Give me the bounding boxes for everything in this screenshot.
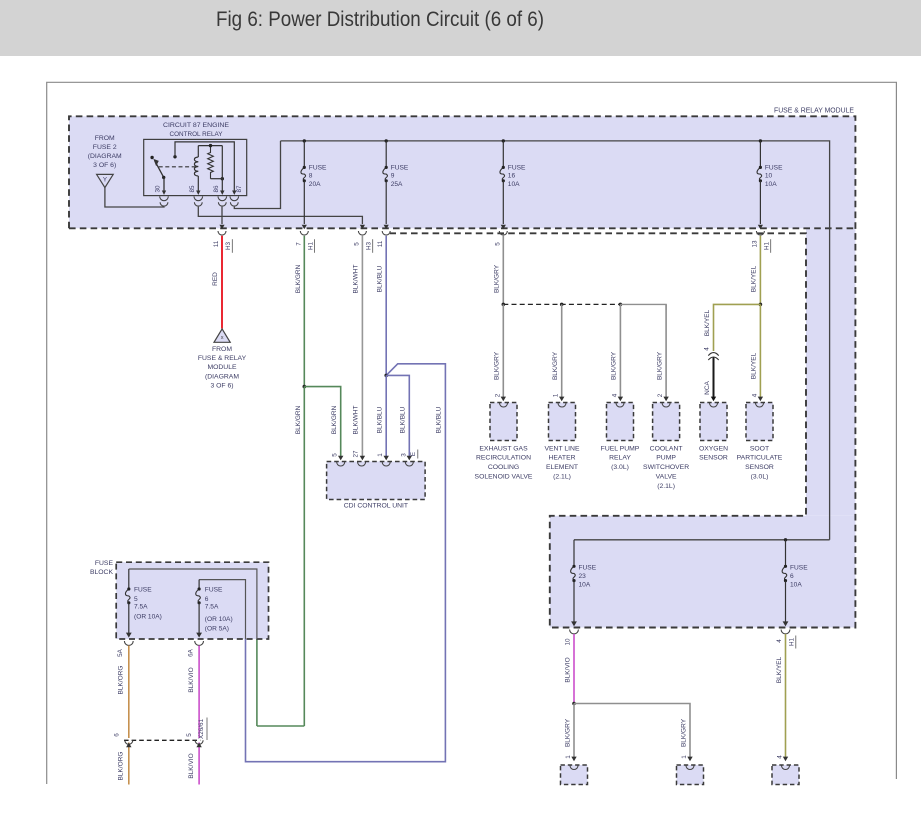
svg-text:FUSE & RELAY MODULE: FUSE & RELAY MODULE	[774, 108, 854, 115]
svg-text:27: 27	[353, 450, 360, 458]
svg-text:FUSE & RELAY: FUSE & RELAY	[198, 355, 247, 362]
svg-text:10A: 10A	[765, 181, 777, 188]
svg-text:(DIAGRAM: (DIAGRAM	[205, 373, 239, 380]
svg-text:5: 5	[186, 733, 193, 737]
relay pin labels 30 85 86 87	[155, 185, 243, 193]
svg-text:5: 5	[353, 242, 360, 246]
svg-text:BLK/GRY: BLK/GRY	[564, 718, 571, 747]
svg-text:BLK/GRY: BLK/GRY	[656, 351, 663, 380]
svg-text:PUMP: PUMP	[656, 455, 676, 462]
module exit connector pin 5	[494, 225, 507, 246]
svg-text:SWITCHOVER: SWITCHOVER	[643, 464, 689, 471]
svg-text:(2.1L): (2.1L)	[553, 474, 571, 481]
svg-text:1: 1	[565, 755, 572, 759]
svg-text:BLK/BLU: BLK/BLU	[400, 406, 407, 433]
svg-text:BLK/YEL: BLK/YEL	[776, 656, 783, 683]
component VENT LINE box	[544, 403, 579, 481]
svg-text:3 OF 6): 3 OF 6)	[210, 383, 233, 390]
svg-text:BLK/BLU: BLK/BLU	[377, 265, 384, 292]
svg-text:9: 9	[391, 173, 395, 180]
svg-text:RED: RED	[212, 272, 219, 286]
svg-text:CONTROL RELAY: CONTROL RELAY	[170, 131, 223, 138]
fuse block dashed box	[90, 560, 269, 639]
svg-text:5: 5	[494, 242, 501, 246]
wire relay pin 85 to BLK/WHT exit	[198, 207, 362, 224]
svg-text:2: 2	[494, 393, 501, 397]
svg-text:BLK/GRN: BLK/GRN	[331, 405, 338, 434]
component SOOT box	[737, 403, 783, 481]
svg-text:COOLING: COOLING	[488, 464, 519, 471]
module exit connector pin 7	[295, 225, 314, 253]
svg-text:H1: H1	[307, 241, 314, 250]
svg-text:RELAY: RELAY	[609, 455, 631, 462]
svg-text:FROM: FROM	[95, 135, 115, 142]
fuse block exit connector 6A	[187, 641, 203, 657]
svg-text:H1: H1	[763, 241, 770, 250]
relay pin connector bumps	[160, 196, 239, 206]
wire BLK/ORG	[118, 646, 129, 785]
relay switch dashed actuator line	[159, 166, 198, 168]
bottom component box	[772, 765, 799, 785]
svg-text:8: 8	[309, 173, 313, 180]
svg-text:16: 16	[508, 173, 516, 180]
wire triangle to relay pin 30	[105, 188, 164, 207]
module exit connector pin 13	[751, 225, 770, 253]
svg-text:BLK/WHT: BLK/WHT	[353, 406, 360, 435]
wire BLK/GRY to component pin 4	[611, 304, 623, 401]
svg-text:BLK/VIO: BLK/VIO	[188, 753, 195, 778]
module exit connector pin 11	[377, 225, 390, 248]
wire BLK/GRY to heated oxygen 1	[564, 704, 576, 762]
svg-text:BLK/WHT: BLK/WHT	[353, 265, 360, 294]
svg-text:BLK/ORG: BLK/ORG	[118, 752, 125, 781]
wire BLK/YEL lower	[776, 634, 788, 761]
connector X26/61 dashed line	[114, 718, 208, 748]
svg-text:13: 13	[751, 240, 758, 248]
svg-text:4: 4	[777, 755, 784, 759]
node FROM FUSE & RELAY MODULE triangle	[198, 329, 247, 390]
svg-text:(OR 5A): (OR 5A)	[205, 625, 229, 632]
svg-text:23: 23	[579, 573, 587, 580]
wire BLK/BLU from fuse 9	[377, 236, 389, 378]
svg-text:4: 4	[611, 393, 618, 397]
svg-text:VALVE: VALVE	[656, 474, 677, 481]
bottom component box	[677, 765, 704, 785]
svg-text:MODULE: MODULE	[207, 364, 237, 371]
svg-text:7.5A: 7.5A	[205, 604, 219, 611]
fuse & relay module dashed outline	[69, 116, 855, 627]
svg-text:5A: 5A	[117, 648, 124, 657]
svg-text:SENSOR: SENSOR	[699, 455, 728, 462]
wire BLK/VIO lower	[564, 634, 576, 705]
svg-text:4: 4	[751, 393, 758, 397]
svg-text:BLK/VIO: BLK/VIO	[564, 657, 571, 682]
block C exit connector pin 4 H1	[776, 630, 796, 649]
svg-text:4: 4	[776, 639, 783, 643]
relay coil (pin 85)	[194, 146, 200, 195]
svg-text:BLK/GRY: BLK/GRY	[611, 351, 618, 380]
svg-text:SENSOR: SENSOR	[745, 464, 774, 471]
dashed net BLK/GRY bus	[503, 303, 666, 310]
svg-text:HEATER: HEATER	[548, 455, 575, 462]
wire relay pin 87 to top bus	[234, 141, 280, 209]
svg-text:2: 2	[657, 393, 664, 397]
module exit connector pin 5	[353, 225, 372, 253]
component OXYGEN box	[699, 403, 728, 462]
component FUEL PUMP box	[601, 403, 640, 472]
wire BLK/WHT	[353, 236, 365, 461]
svg-text:COOLANT: COOLANT	[650, 445, 683, 452]
svg-text:BLK/GRY: BLK/GRY	[494, 351, 501, 380]
fuse F16 10A	[500, 141, 526, 224]
wire BLK/BLU to CDI pin 1	[377, 375, 389, 460]
fuse F23 10A (fuse & relay module)	[571, 540, 597, 627]
fuse F6 7.5A	[196, 580, 233, 638]
svg-text:CDI CONTROL UNIT: CDI CONTROL UNIT	[344, 503, 408, 510]
svg-text:Y: Y	[103, 177, 107, 184]
svg-text:SOLENOID VALVE: SOLENOID VALVE	[475, 474, 533, 481]
svg-text:BLK/GRY: BLK/GRY	[494, 264, 501, 293]
svg-text:BLK/YEL: BLK/YEL	[704, 309, 711, 336]
block C exit connector pin 10	[565, 630, 579, 646]
svg-text:BLK/VIO: BLK/VIO	[188, 667, 195, 692]
svg-text:3 OF 6): 3 OF 6)	[93, 162, 116, 169]
svg-text:BLK/BLU: BLK/BLU	[436, 406, 443, 433]
svg-text:BLK/GRN: BLK/GRN	[295, 264, 302, 293]
svg-text:FUSE 2: FUSE 2	[93, 144, 117, 151]
svg-text:VENT LINE: VENT LINE	[544, 445, 579, 452]
svg-text:BLK/YEL: BLK/YEL	[751, 352, 758, 379]
wire BLK/BLU to CDI pin 3	[386, 375, 412, 460]
svg-text:RECIRCULATION: RECIRCULATION	[476, 455, 531, 462]
svg-text:(OR 10A): (OR 10A)	[134, 614, 162, 621]
svg-text:6A: 6A	[187, 648, 194, 657]
svg-text:X26/61: X26/61	[198, 719, 205, 739]
svg-text:FUSE: FUSE	[391, 164, 409, 171]
wire BLK/GRY branch to component 2	[574, 704, 693, 762]
svg-text:FUEL PUMP: FUEL PUMP	[601, 445, 640, 452]
svg-text:11: 11	[377, 240, 384, 247]
svg-text:BLK/ORG: BLK/ORG	[118, 666, 125, 695]
svg-text:FUSE: FUSE	[205, 587, 223, 594]
fuse block bus 2	[199, 580, 245, 639]
svg-text:6: 6	[114, 733, 121, 737]
svg-text:FUSE: FUSE	[309, 164, 327, 171]
wire BLK/GRN main	[257, 236, 306, 726]
fuse & relay module region fill	[69, 116, 855, 627]
svg-text:5: 5	[332, 453, 339, 457]
svg-text:SOOT: SOOT	[750, 445, 769, 452]
svg-text:(DIAGRAM: (DIAGRAM	[88, 153, 122, 160]
module exit connector pin 11	[213, 225, 232, 253]
svg-text:ELEMENT: ELEMENT	[546, 464, 578, 471]
relay internal wiring (pins 86, 87)	[173, 142, 236, 195]
svg-text:BLK/GRY: BLK/GRY	[680, 718, 687, 747]
svg-text:BLOCK: BLOCK	[90, 569, 114, 576]
fuse F9 25A	[383, 141, 409, 224]
svg-text:E: E	[410, 452, 417, 456]
wire RED	[212, 236, 222, 329]
svg-text:Fig 6: Power Distribution Circ: Fig 6: Power Distribution Circuit (6 of …	[216, 8, 544, 31]
svg-text:BLK/BLU: BLK/BLU	[377, 406, 384, 433]
svg-text:1: 1	[553, 393, 560, 397]
svg-text:10A: 10A	[790, 582, 802, 589]
svg-text:H3: H3	[365, 241, 372, 250]
component EXHAUST GAS box	[475, 403, 533, 481]
svg-text:25A: 25A	[391, 181, 403, 188]
svg-text:7: 7	[295, 242, 302, 246]
svg-text:1: 1	[681, 755, 688, 759]
svg-text:EXHAUST GAS: EXHAUST GAS	[479, 445, 528, 452]
fuse F10 10A	[757, 141, 783, 224]
svg-text:BLK/GRY: BLK/GRY	[552, 351, 559, 380]
relay K1 CIRCUIT 87 ENGINE CONTROL RELAY box	[144, 122, 247, 196]
svg-text:(OR 10A): (OR 10A)	[205, 616, 233, 623]
svg-text:H3: H3	[225, 241, 232, 250]
svg-text:OXYGEN: OXYGEN	[699, 445, 728, 452]
top bus wire	[281, 139, 830, 540]
wire BLK/GRN branch to CDI pin 5	[304, 387, 343, 461]
svg-text:5: 5	[134, 596, 138, 603]
relay resistor	[208, 146, 214, 179]
wire relay pin 86 down to RED exit	[221, 207, 223, 224]
svg-text:PARTICULATE: PARTICULATE	[737, 455, 783, 462]
svg-text:10A: 10A	[579, 582, 591, 589]
fuse block exit connector 5A	[117, 641, 133, 657]
svg-text:86: 86	[213, 185, 220, 193]
page frame	[47, 82, 897, 784]
svg-text:BLK/GRN: BLK/GRN	[295, 405, 302, 434]
wire NCA to oxygen sensor	[704, 358, 716, 402]
svg-text:(2.1L): (2.1L)	[657, 483, 675, 490]
wire BLK/GRY to component pin 2	[656, 304, 668, 401]
svg-text:(3.0L): (3.0L)	[611, 464, 629, 471]
component COOLANT box	[643, 403, 689, 490]
wire BLK/VIO	[188, 646, 199, 785]
svg-text:85: 85	[189, 185, 196, 193]
svg-text:10: 10	[765, 173, 773, 180]
CDI control unit box	[327, 462, 426, 510]
wire BLK/BLU loop to fuse block	[246, 364, 446, 762]
svg-text:FUSE: FUSE	[579, 564, 597, 571]
svg-text:4: 4	[704, 347, 711, 351]
svg-text:CIRCUIT 87 ENGINE: CIRCUIT 87 ENGINE	[163, 122, 229, 129]
bottom component box	[561, 765, 588, 785]
fuse block bus 1	[129, 569, 257, 639]
block C bus wire	[574, 538, 830, 541]
svg-text:3: 3	[400, 453, 407, 457]
svg-text:(3.0L): (3.0L)	[751, 474, 769, 481]
wire BLK/YEL branch to oxygen sensor	[704, 304, 761, 351]
wire BLK/GRY to component pin 2	[494, 304, 506, 401]
svg-text:1: 1	[377, 453, 384, 457]
svg-text:7.5A: 7.5A	[134, 604, 148, 611]
node FROM FUSE 2 source triangle	[88, 135, 122, 187]
CDI pin labels 5 27 1 3 E	[332, 450, 418, 459]
fuse & relay module label	[774, 108, 854, 115]
svg-text:20A: 20A	[309, 181, 321, 188]
svg-text:FUSE: FUSE	[790, 564, 808, 571]
svg-text:10: 10	[565, 638, 572, 646]
svg-text:6: 6	[205, 596, 209, 603]
svg-text:FUSE: FUSE	[765, 164, 783, 171]
inline connector pin 4 oxygen sensor	[704, 347, 719, 360]
svg-text:11: 11	[213, 240, 220, 247]
fuse F6 10A (fuse & relay module)	[782, 540, 808, 627]
svg-text:BLK/YEL: BLK/YEL	[751, 265, 758, 292]
svg-text:H1: H1	[789, 637, 796, 646]
svg-text:NCA: NCA	[704, 380, 711, 394]
svg-text:FUSE: FUSE	[508, 164, 526, 171]
wire BLK/GRY from fuse 16	[494, 236, 506, 307]
wire BLK/YEL from fuse 10	[751, 236, 763, 402]
svg-text:6: 6	[790, 573, 794, 580]
svg-text:87: 87	[236, 185, 243, 193]
svg-text:30: 30	[155, 185, 162, 193]
svg-text:x: x	[221, 335, 224, 341]
header title bar	[0, 0, 921, 56]
svg-text:FROM: FROM	[212, 346, 232, 353]
svg-text:FUSE: FUSE	[134, 587, 152, 594]
fuse F8 20A	[301, 141, 327, 224]
svg-text:FUSE: FUSE	[95, 560, 114, 567]
relay switch contact (pin 30)	[150, 156, 166, 195]
svg-text:10A: 10A	[508, 181, 520, 188]
fuse F5 7.5A	[125, 569, 161, 638]
wire BLK/GRY to component pin 1	[552, 304, 564, 401]
